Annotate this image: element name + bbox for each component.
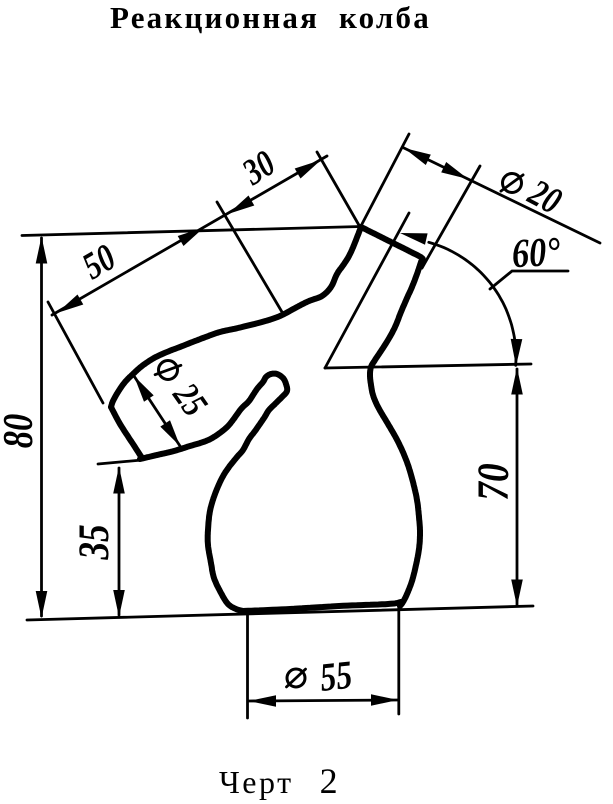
leader line for 60 deg label: [490, 271, 568, 289]
svg-text:55: 55: [318, 652, 354, 699]
extension line through S-curve for 30: [217, 202, 282, 312]
label diam 20: [503, 174, 522, 193]
label diam 25: [159, 361, 178, 380]
dimension line diam 55: [249, 700, 398, 701]
svg-text:60°: 60°: [511, 229, 562, 277]
35 extension line at left neck mouth: [98, 460, 142, 464]
extension line right mouth corner for diam 20: [422, 166, 480, 268]
flask bottom edge: [243, 602, 401, 611]
svg-text:50: 50: [75, 236, 122, 288]
dimension line diam 25 across left neck: [134, 376, 180, 446]
flask S-curve: left-neck upper wall to right-neck left wall: [111, 227, 361, 407]
mid-right horizontal reference line (70 top / 60deg base): [325, 364, 531, 368]
left neck mouth edge: [111, 407, 142, 458]
svg-text:25: 25: [164, 375, 215, 423]
svg-text:70: 70: [469, 463, 517, 500]
extension line to junction for 30: [317, 152, 360, 227]
label diam 55: [287, 669, 305, 687]
extension line right for diam 55: [397, 605, 400, 714]
left neck lower wall, inner curl and body left wall: [140, 374, 287, 611]
svg-text:80: 80: [0, 414, 42, 448]
right neck axis line down to 60deg vertex: [325, 213, 409, 368]
dimension line 35: [118, 468, 121, 615]
title: Reaction flask: [110, 0, 431, 36]
svg-text:35: 35: [70, 524, 118, 560]
svg-text:20: 20: [521, 171, 568, 223]
top horizontal reference line: [22, 227, 361, 236]
dimension line 70: [516, 369, 519, 605]
right neck mouth, right wall and body right wall: [361, 227, 423, 606]
dimension line 80: [40, 238, 43, 616]
caption: Drawing 2: [219, 760, 340, 802]
bottom horizontal reference line: [27, 606, 533, 620]
extension line left for diam 55: [246, 615, 249, 718]
60 degree arc: [429, 242, 516, 365]
oblique dimension line carrying 50 and 30: [52, 156, 327, 315]
dimension line diam 20: [404, 148, 600, 243]
extension line at left neck mouth for 50: [48, 302, 103, 403]
extension line above junction for diam 20: [362, 134, 409, 224]
